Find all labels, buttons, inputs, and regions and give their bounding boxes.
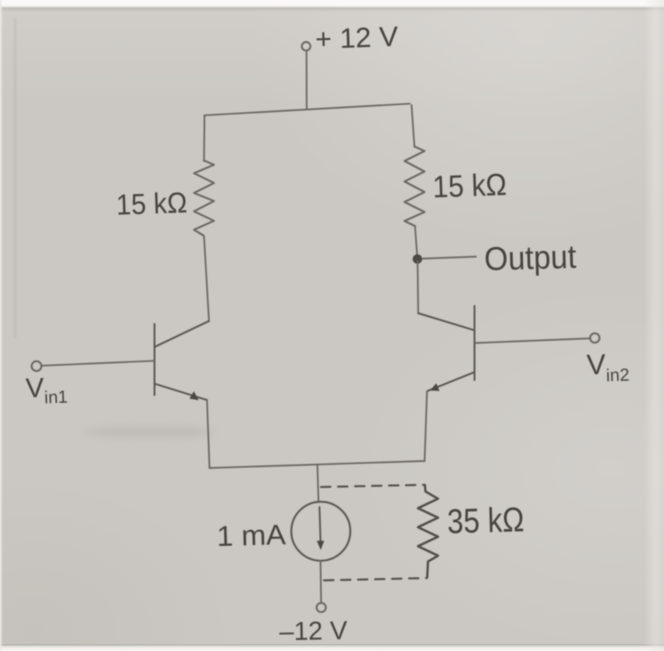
wire: current source to -12V terminal (320, 561, 323, 603)
svg-text:Vin2: Vin2 (586, 348, 630, 386)
svg-text:15 kΩ: 15 kΩ (116, 187, 188, 221)
wire: tail rail to current source (317, 465, 318, 502)
wire: top rail left corner to R1 (203, 115, 206, 161)
wire: tail rail (210, 461, 425, 468)
input terminal Vin1 (32, 361, 42, 371)
resistor R1 15 kOhm (left collector) (194, 161, 214, 236)
wire: +12V terminal to top rail (306, 51, 308, 109)
supply terminal -12V (317, 603, 326, 612)
svg-text:15 kΩ: 15 kΩ (432, 167, 507, 205)
resistor R2 15 kOhm (right collector) (405, 147, 425, 227)
wire: Q2 base to Vin2 terminal (476, 338, 591, 343)
wire: R2 to output node (415, 226, 417, 259)
wire: top rail (205, 104, 410, 116)
wire: top rail right corner to R2 (412, 105, 415, 147)
wire: Q1 emitter to tail rail (207, 400, 210, 468)
resistor R3 35 kOhm (418, 485, 438, 577)
svg-text:–12 V: –12 V (279, 615, 348, 646)
current source I1 1 mA (291, 502, 350, 561)
+12V supply terminal (302, 42, 311, 51)
wire: Vin1 terminal to Q1 base (42, 361, 155, 366)
input terminal Vin2 (590, 333, 599, 342)
dashed wire: R3 bottom to -12V wire (324, 578, 427, 580)
svg-text:1 mA: 1 mA (216, 519, 286, 553)
wire: output node to Q2 collector (417, 261, 420, 313)
svg-text:+ 12 V: + 12 V (315, 21, 399, 55)
svg-text:Output: Output (484, 238, 577, 277)
svg-text:35 kΩ: 35 kΩ (447, 501, 525, 541)
transistor Q2 (418, 306, 474, 391)
wire: R1 to Q1 collector (204, 236, 209, 321)
transistor Q1 (155, 321, 210, 400)
wire: Q2 emitter to tail rail (425, 392, 427, 462)
wire: output stub (423, 257, 477, 259)
svg-text:Vin1: Vin1 (25, 371, 68, 408)
node: output junction dot (413, 254, 423, 264)
dashed wire: tail node to R3 top (321, 485, 425, 487)
